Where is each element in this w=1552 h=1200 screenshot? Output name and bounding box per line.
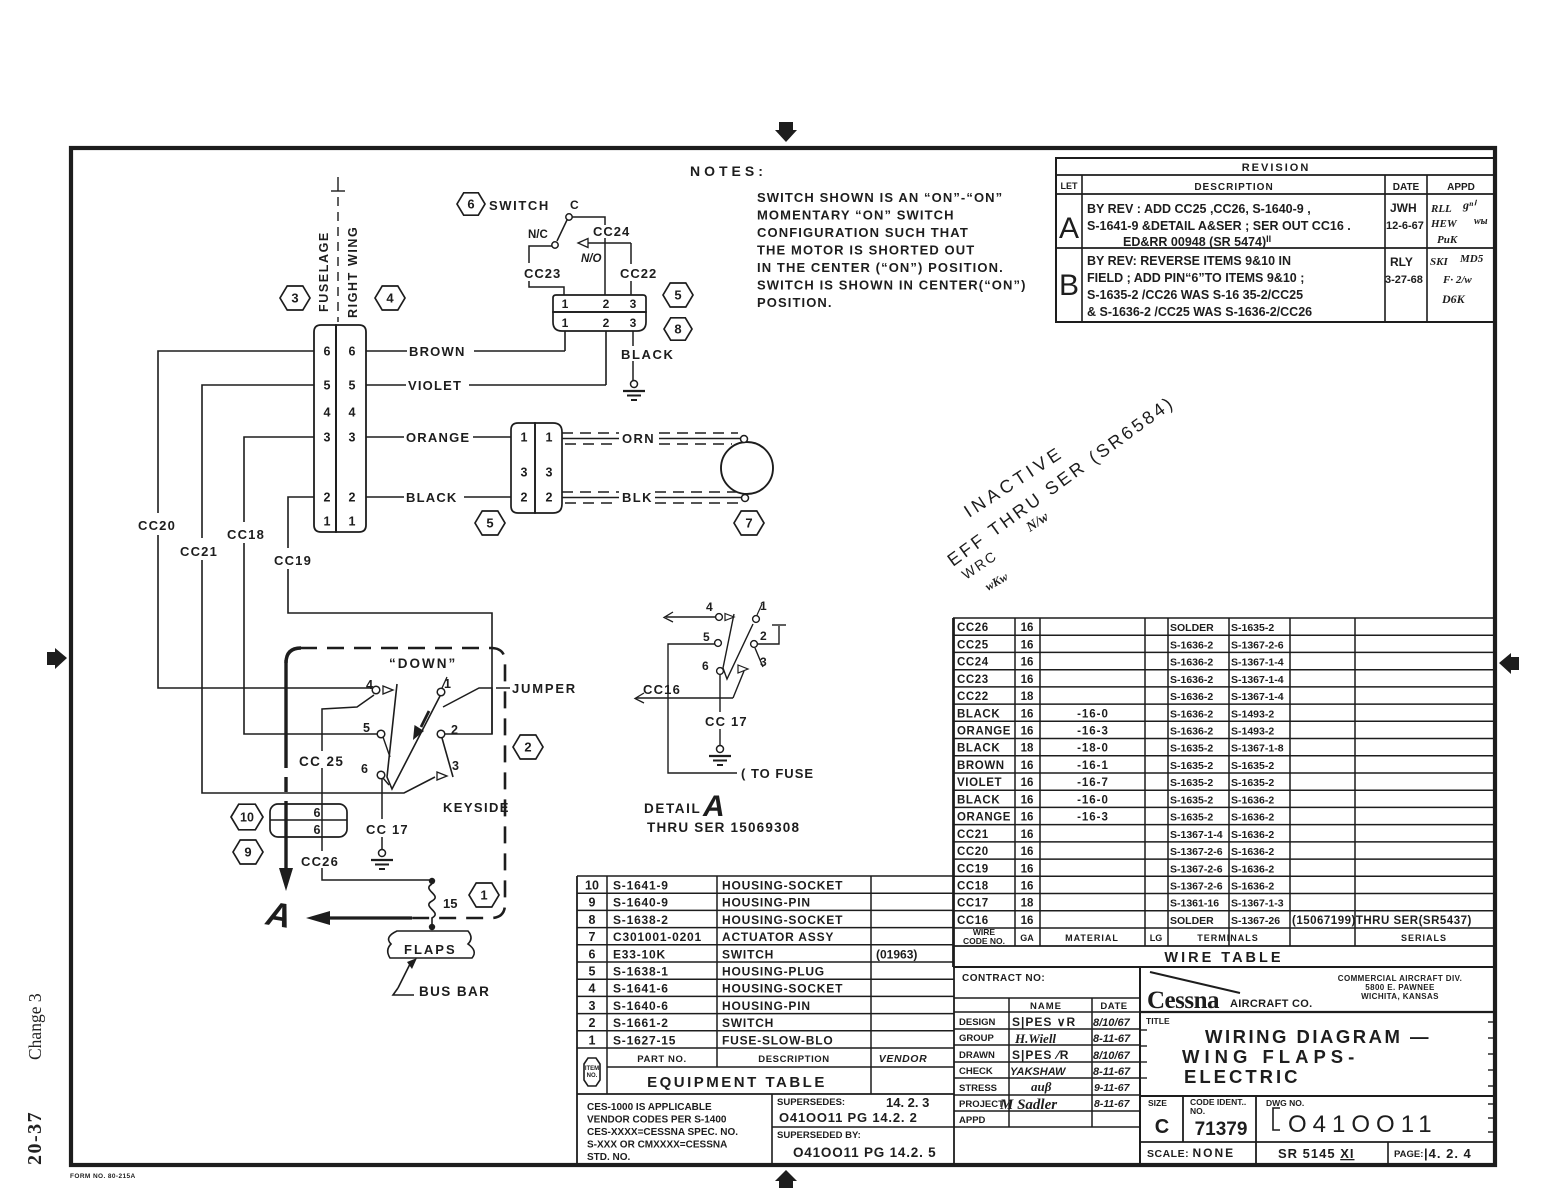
svg-text:16: 16 [1021,777,1034,789]
svg-text:15: 15 [443,896,457,911]
svg-text:2: 2 [521,491,528,505]
svg-text:CC18: CC18 [227,527,265,542]
svg-text:4: 4 [706,600,713,614]
svg-text:SUPERSEDED BY:: SUPERSEDED BY: [777,1130,861,1141]
svg-text:SWITCH SHOWN IS AN “ON”-“ON: SWITCH SHOWN IS AN “ON”-“ON” [757,190,1003,205]
svg-text:S-1367-1-8: S-1367-1-8 [1231,743,1284,755]
svg-text:ACTUATOR ASSY: ACTUATOR ASSY [722,930,834,944]
svg-text:CC22: CC22 [620,266,657,281]
svg-text:5: 5 [363,721,370,735]
down-switch blade 2-3 [442,738,453,777]
svg-text:CC19: CC19 [274,553,312,568]
svg-text:& S-1636-2 /CC25 WAS S-1636-2: & S-1636-2 /CC25 WAS S-1636-2/CC26 [1087,305,1312,319]
svg-text:5: 5 [486,516,493,531]
supersedes block [772,1094,954,1164]
svg-text:GA: GA [1020,933,1034,943]
svg-text:ITEM: ITEM [585,1066,599,1072]
down-switch enclosure (dashed) [286,648,505,918]
svg-text:BLACK: BLACK [957,743,1000,755]
svg-text:S-1635-2: S-1635-2 [1231,622,1274,634]
svg-text:18: 18 [1021,691,1034,703]
svg-text:LG: LG [1150,933,1163,943]
svg-text:S-1636-2: S-1636-2 [1170,708,1213,720]
label CC17 (detail A) [705,714,748,729]
down-switch contact 6 [361,762,389,785]
detail A blade 2-3 [755,648,763,667]
detail A wire to contact 4 [664,612,716,622]
svg-text:2: 2 [760,629,767,643]
revision table headers [1061,162,1475,193]
svg-text:16: 16 [1021,812,1034,824]
svg-text:1: 1 [589,1033,596,1047]
svg-text:6: 6 [702,659,709,673]
svg-text:SWITCH: SWITCH [722,947,774,961]
wire CC25 (contact 4 to housing) [322,695,374,851]
svg-text:B: B [1059,269,1079,302]
detail A switch contact 3 arrow [738,655,767,673]
svg-text:C301001-0201: C301001-0201 [613,930,702,944]
callout hexagon 9 [233,840,263,864]
svg-text:CC18: CC18 [957,881,989,893]
border frame [71,148,1495,1165]
svg-text:6: 6 [314,823,321,837]
svg-text:M Sadler: M Sadler [999,1097,1057,1113]
svg-text:8/10/67: 8/10/67 [1093,1050,1131,1062]
notes paragraph [757,190,1027,310]
FLAPS bus bar banner [388,931,475,958]
switch S1 N/O contact arrow [578,239,602,266]
svg-text:HOUSING-SOCKET: HOUSING-SOCKET [722,879,843,893]
wire BLACK (pin2 to motor plug) [366,490,511,505]
label JUMPER [512,681,577,696]
svg-text:16: 16 [1021,674,1034,686]
svg-text:3: 3 [324,431,331,445]
scale row [1140,1142,1495,1164]
svg-text:ORN: ORN [622,431,655,446]
cessna logo block [1140,972,1495,1014]
svg-text:BLK: BLK [622,490,653,505]
ground symbol (switch) [623,381,645,401]
svg-text:MATERIAL: MATERIAL [1065,933,1119,943]
svg-text:COMMERCIAL AIRCRAFT DIV.: COMMERCIAL AIRCRAFT DIV. [1338,974,1462,983]
registration arrow left [47,648,67,669]
page number 20-37 (rotated margin text) [24,1111,46,1165]
label CC22 [620,266,657,281]
svg-text:3: 3 [349,431,356,445]
svg-text:-16-0: -16-0 [1077,794,1109,806]
svg-text:WICHITA, KANSAS: WICHITA, KANSAS [1361,992,1439,1001]
label CC25 [299,754,344,769]
label CC19 [274,553,312,568]
wire CC21 (pin5 to down-switch contact 3) [202,385,435,793]
equipment table title [647,1074,827,1091]
svg-text:C: C [570,198,579,212]
svg-text:2: 2 [324,491,331,505]
svg-text:FUSE-SLOW-BLO: FUSE-SLOW-BLO [722,1033,833,1047]
svg-text:CC23: CC23 [524,266,561,281]
svg-text:CC22: CC22 [957,691,989,703]
svg-text:2: 2 [546,491,553,505]
svg-text:CES-XXXX=CESSNA SPEC. NO.: CES-XXXX=CESSNA SPEC. NO. [587,1127,738,1138]
svg-text:NAME: NAME [1030,1001,1062,1012]
svg-text:16: 16 [1021,657,1034,669]
svg-text:FUSELAGE: FUSELAGE [317,231,331,312]
label CC16 [643,682,681,697]
svg-text:8: 8 [674,322,681,337]
svg-text:3: 3 [291,291,298,306]
svg-text:6: 6 [324,345,331,359]
svg-text:A: A [1059,212,1079,245]
svg-text:DATE: DATE [1393,182,1420,193]
svg-text:S-1367-2-6: S-1367-2-6 [1231,639,1284,651]
detail A caption [644,790,800,835]
svg-text:-16-0: -16-0 [1077,708,1109,720]
svg-text:BROWN: BROWN [409,344,466,359]
wire CC19 (pin2 to down-switch contact 2) [288,497,492,734]
detail A switch contact 5 [703,630,721,646]
svg-text:12-6-67: 12-6-67 [1386,220,1424,232]
wire CC24 (C to housing pin2) [572,217,605,295]
svg-text:TERMINALS: TERMINALS [1197,933,1259,943]
label KEYSIDE [443,800,510,815]
svg-text:NO.: NO. [587,1073,598,1079]
equipment table rows [585,879,917,1048]
svg-text:CC26: CC26 [957,622,989,634]
svg-text:16: 16 [1021,622,1034,634]
wire CC18 (pin3 to down-switch contact 5) [244,437,377,734]
svg-text:-16-3: -16-3 [1077,812,1109,824]
svg-text:1: 1 [546,431,553,445]
down-switch blade 4-1 [387,684,440,789]
wire CC25 heavy lead with arrow to detail A [279,660,293,891]
svg-text:16: 16 [1021,915,1034,927]
svg-text:BY REV : ADD CC25 ,CC26, S-164: BY REV : ADD CC25 ,CC26, S-1640-9 , [1087,202,1311,216]
svg-text:S-1641-6: S-1641-6 [613,982,669,996]
actuation direction arrow [413,711,429,740]
svg-text:CC16: CC16 [643,682,681,697]
down-switch contact 5 [363,721,390,757]
svg-text:10: 10 [240,811,254,825]
svg-text:CC24: CC24 [593,224,630,239]
svg-text:SERIALS: SERIALS [1401,933,1447,943]
svg-text:S-1640-6: S-1640-6 [613,999,669,1013]
svg-text:CC20: CC20 [957,846,989,858]
wire pin3 to ground (BLACK) [632,331,634,380]
svg-text:SOLDER: SOLDER [1170,915,1214,927]
svg-text:RLY: RLY [1390,255,1413,269]
equipment table [577,618,954,1164]
svg-text:HOUSING-SOCKET: HOUSING-SOCKET [722,913,843,927]
svg-text:3: 3 [452,759,459,773]
svg-text:3: 3 [630,316,637,330]
label TO FUSE [741,766,814,781]
svg-text:C: C [1155,1116,1169,1138]
svg-text:gⁿⁱ: gⁿⁱ [1462,198,1477,212]
svg-text:5: 5 [674,288,681,303]
svg-text:EQUIPMENT TABLE: EQUIPMENT TABLE [647,1074,827,1091]
down-switch contact 4 [366,678,393,694]
cessna address [1338,974,1462,1001]
svg-text:3: 3 [546,466,553,480]
svg-text:S-1635-2 /CC26 WAS S-16 35-2: S-1635-2 /CC26 WAS S-16 35-2/CC25 [1087,288,1303,302]
svg-text:2: 2 [524,740,531,755]
wire CC20 (pin6 to down-switch contact 4) [158,351,372,688]
svg-text:wы: wы [1474,216,1488,227]
wire CC17 (contact6 to ground) [381,779,383,849]
svg-text:1: 1 [444,677,451,691]
svg-text:SOLDER: SOLDER [1170,622,1214,634]
svg-text:HOUSING-PLUG: HOUSING-PLUG [722,965,825,979]
detail A wire CC17 to ground [719,675,721,745]
svg-text:2: 2 [603,297,610,311]
callout hexagon 10 [231,804,263,830]
detail A wire CC16 [635,671,744,703]
svg-text:SWITCH IS SHOWN IN CENTER(“ON: SWITCH IS SHOWN IN CENTER(“ON”) [757,278,1027,293]
label BLACK (switch ground lead) [621,347,675,362]
svg-text:4: 4 [324,406,331,420]
svg-text:ORANGE: ORANGE [406,430,470,445]
svg-text:CC 17: CC 17 [366,822,409,837]
svg-text:WIRING DIAGRAM —: WIRING DIAGRAM — [1205,1026,1431,1047]
svg-text:S-1636-2: S-1636-2 [1170,691,1213,703]
wire table column headers [963,927,1447,946]
svg-text:6: 6 [349,345,356,359]
switch S1 housing pin numbers [562,297,637,330]
svg-text:5: 5 [349,379,356,393]
svg-text:(15067199)THRU SER(SR5437): (15067199)THRU SER(SR5437) [1292,915,1472,927]
svg-text:S-1493-2: S-1493-2 [1231,708,1274,720]
svg-text:9-11-67: 9-11-67 [1094,1082,1131,1094]
svg-text:DATE: DATE [1100,1001,1127,1012]
svg-text:TITLE: TITLE [1146,1016,1170,1026]
equipment table headers [637,1053,927,1065]
svg-text:S-1367-1-4: S-1367-1-4 [1231,657,1284,669]
svg-text:3: 3 [630,297,637,311]
svg-text:10: 10 [585,879,599,893]
svg-text:8: 8 [589,913,596,927]
svg-text:SR 5145 XI: SR 5145 XI [1278,1146,1355,1161]
svg-text:Change 3: Change 3 [25,993,45,1060]
svg-text:-16-1: -16-1 [1077,760,1109,772]
svg-text:THRU SER 15069308: THRU SER 15069308 [647,820,800,835]
svg-text:N/C: N/C [528,229,548,241]
svg-text:S-1367-1-4: S-1367-1-4 [1170,829,1223,841]
svg-text:16: 16 [1021,863,1034,875]
svg-text:BY REV: REVERSE ITEMS 9&10 IN: BY REV: REVERSE ITEMS 9&10 IN [1087,254,1291,268]
svg-text:1: 1 [480,888,487,903]
wire BROWN (pin6 to switch pin1) [366,331,565,359]
svg-text:S-1636-2: S-1636-2 [1170,674,1213,686]
svg-text:CC17: CC17 [957,898,989,910]
svg-text:DESCRIPTION: DESCRIPTION [758,1054,830,1065]
motor M1 [721,436,773,502]
svg-text:2: 2 [589,1016,596,1030]
svg-text:HOUSING-PIN: HOUSING-PIN [722,896,811,910]
svg-text:H.Wiell: H.Wiell [1014,1031,1056,1046]
svg-text:BLACK: BLACK [957,708,1000,720]
svg-text:PART NO.: PART NO. [637,1054,686,1065]
svg-text:O41OO11 PG 14.2. 5: O41OO11 PG 14.2. 5 [793,1145,936,1160]
svg-text:MD5: MD5 [1459,253,1484,265]
svg-text:9: 9 [244,845,251,860]
svg-text:16: 16 [1021,760,1034,772]
callout hexagon 7 (motor) [734,511,764,535]
svg-text:O41OO11 PG 14.2. 2: O41OO11 PG 14.2. 2 [779,1110,918,1125]
svg-text:DETAIL: DETAIL [644,801,701,816]
svg-text:FLAPS: FLAPS [404,942,457,957]
revision row B [1059,253,1484,319]
svg-text:SUPERSEDES:: SUPERSEDES: [777,1097,845,1108]
svg-text:CC23: CC23 [957,674,989,686]
wire VIOLET (pin5 to switch pin2) [366,331,606,393]
callout hexagon 4 [375,286,405,310]
svg-text:S|PES ∨R: S|PES ∨R [1012,1015,1076,1029]
wire CC23 (N/C to housing pin1) [529,246,564,295]
svg-text:3-27-68: 3-27-68 [1385,274,1423,286]
svg-text:16: 16 [1021,708,1034,720]
svg-text:CC25: CC25 [957,639,989,651]
svg-text:S-1635-2: S-1635-2 [1170,794,1213,806]
svg-text:FIELD ; ADD PIN“6”TO ITEMS 9: FIELD ; ADD PIN“6”TO ITEMS 9&10 ; [1087,271,1304,285]
registration arrow right [1499,653,1519,674]
wire BLK leads to motor [562,490,741,505]
fuselage label [317,231,331,312]
svg-text:KEYSIDE: KEYSIDE [443,800,510,815]
svg-text:S-1636-2: S-1636-2 [1170,657,1213,669]
svg-text:WING FLAPS-: WING FLAPS- [1182,1046,1359,1067]
svg-text:CONTRACT NO:: CONTRACT NO: [962,973,1045,984]
housing 6/6 connector [270,804,347,837]
svg-text:8/10/67: 8/10/67 [1093,1017,1131,1029]
svg-text:8-11-67: 8-11-67 [1093,1066,1131,1078]
svg-text:STD. NO.: STD. NO. [587,1152,631,1163]
svg-text:6: 6 [589,947,596,961]
wire ORANGE (pin3 to motor plug) [366,430,511,445]
svg-text:CODE NO.: CODE NO. [963,936,1005,946]
svg-text:S-1367-2-6: S-1367-2-6 [1170,881,1223,893]
svg-text:CONFIGURATION SUCH THAT: CONFIGURATION SUCH THAT [757,225,969,240]
svg-text:BUS BAR: BUS BAR [419,984,490,999]
svg-text:VIOLET: VIOLET [957,777,1002,789]
detail A blade 4-1 [723,614,753,679]
svg-text:8-11-67: 8-11-67 [1093,1033,1131,1045]
bus bar leader arrow [393,958,417,995]
svg-text:S-1661-2: S-1661-2 [613,1016,669,1030]
svg-text:1: 1 [562,316,569,330]
svg-text:S|PES ⁄R: S|PES ⁄R [1012,1048,1069,1062]
svg-text:PAGE:: PAGE: [1394,1149,1423,1160]
svg-text:CC21: CC21 [957,829,989,841]
svg-text:HOUSING-PIN: HOUSING-PIN [722,999,811,1013]
contract labels [959,973,1128,1126]
svg-text:16: 16 [1021,639,1034,651]
svg-text:BLACK: BLACK [957,794,1000,806]
svg-text:5: 5 [589,965,596,979]
svg-text:3: 3 [521,466,528,480]
svg-text:16: 16 [1021,829,1034,841]
svg-text:S-1635-2: S-1635-2 [1170,777,1213,789]
svg-text:CC 17: CC 17 [705,714,748,729]
fuselage/wing split line [331,177,345,322]
svg-text:4: 4 [386,291,394,306]
registration arrow top [775,122,797,142]
callout hexagon 3 [280,286,310,310]
label CC26 [301,854,339,869]
svg-text:18: 18 [1021,898,1034,910]
svg-text:S-1367-1-4: S-1367-1-4 [1231,691,1284,703]
svg-text:POSITION.: POSITION. [757,295,833,310]
svg-text:16: 16 [1021,726,1034,738]
fuse 15A squiggle [429,884,458,930]
svg-text:Cessna: Cessna [1147,987,1220,1014]
label DOWN [389,656,457,671]
svg-text:SWITCH: SWITCH [489,198,550,213]
svg-text:JWH: JWH [1390,201,1417,215]
svg-text:BROWN: BROWN [957,760,1005,772]
svg-text:E33-10K: E33-10K [613,947,666,961]
svg-text:2: 2 [349,491,356,505]
svg-text:S-1635-2: S-1635-2 [1231,777,1274,789]
size / code ident / dwg row [1140,1096,1495,1164]
svg-text:CC16: CC16 [957,915,989,927]
svg-text:-16-3: -16-3 [1077,726,1109,738]
detail A switch contact 1 [753,599,767,622]
svg-text:SCALE: NONE: SCALE: NONE [1147,1146,1235,1160]
svg-text:S-1636-2: S-1636-2 [1231,794,1274,806]
svg-text:FORM NO. 80-215A: FORM NO. 80-215A [70,1173,136,1180]
svg-text:4: 4 [349,406,356,420]
wire table rows [957,622,1472,927]
svg-text:DESIGN: DESIGN [959,1017,996,1028]
switch S1 blade (C to N/C) [557,220,567,241]
switch S1 label [489,198,550,213]
svg-text:CC26: CC26 [301,854,339,869]
connector J1 pin numbers [324,345,356,529]
detail A switch contact 4 [706,600,734,621]
svg-text:S-1635-2: S-1635-2 [1170,743,1213,755]
svg-text:S-1367-2-6: S-1367-2-6 [1170,863,1223,875]
svg-text:16: 16 [1021,846,1034,858]
svg-text:MOMENTARY “ON” SWITCH: MOMENTARY “ON” SWITCH [757,208,955,223]
label CC17 [366,822,409,837]
down-switch contact 3 arrow [437,759,459,780]
title box binder ticks [1140,1022,1495,1132]
svg-text:“DOWN”: “DOWN” [389,656,457,671]
svg-text:VENDOR: VENDOR [879,1053,928,1065]
svg-text:F· 2/w: F· 2/w [1442,274,1472,286]
svg-text:S-1635-2: S-1635-2 [1170,760,1213,772]
down-switch contact 1 [437,677,451,696]
detail A flag [263,895,294,937]
vendor codes note [587,1102,738,1163]
svg-text:VENDOR CODES PER S-1400: VENDOR CODES PER S-1400 [587,1115,727,1126]
wire ORN leads to motor [562,431,740,446]
svg-text:16: 16 [1021,881,1034,893]
contract block [954,967,1495,1164]
switch S1 housing connector [553,295,646,331]
svg-text:( TO FUSE: ( TO FUSE [741,766,814,781]
svg-text:NO.: NO. [1190,1106,1205,1116]
svg-text:6: 6 [467,197,474,212]
svg-text:S-1636-2: S-1636-2 [1231,881,1274,893]
svg-text:3: 3 [589,999,596,1013]
svg-text:IN THE CENTER (“ON”) POSITION: IN THE CENTER (“ON”) POSITION. [757,260,1004,275]
svg-text:S-1641-9 &DETAIL A&SER ; SER O: S-1641-9 &DETAIL A&SER ; SER OUT CC16 . [1087,219,1351,233]
svg-text:REVISION: REVISION [1242,162,1311,174]
callout hexagon 5 (motor plug) [475,511,505,535]
svg-text:5: 5 [703,630,710,644]
connector P2 pin numbers [521,431,553,505]
